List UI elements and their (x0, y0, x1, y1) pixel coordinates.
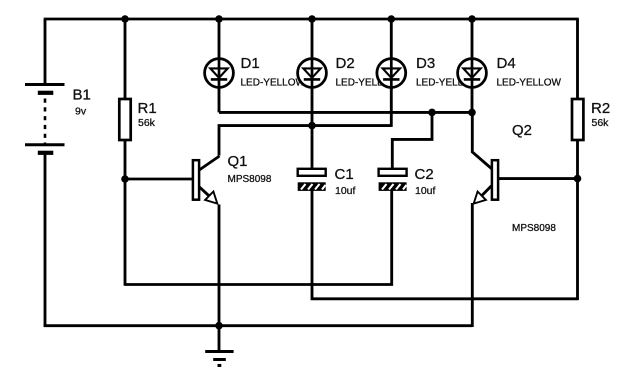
svg-text:10uf: 10uf (335, 185, 356, 197)
svg-text:9v: 9v (75, 106, 87, 118)
svg-text:C1: C1 (335, 166, 354, 183)
wire cross-couple C2 bottom to Q1 base (node B1q) (125, 190, 392, 285)
wire Q1 emitter diagonal (199, 186, 211, 197)
LED D2 (298, 57, 327, 90)
svg-text:D4: D4 (497, 55, 516, 72)
transistor Q2 (474, 160, 498, 203)
wire bottom ground rail (44, 324, 473, 327)
wire R2 top lead (576, 19, 579, 99)
ground (205, 352, 233, 366)
wire Q2 collector net horizontal (219, 111, 472, 114)
svg-text:R1: R1 (138, 100, 157, 117)
wire Q2 emitter diagonal (481, 186, 492, 197)
svg-text:D1: D1 (241, 55, 260, 72)
resistor R1 (119, 99, 130, 140)
wire cross-couple C1 bottom to Q2 base (node B2q) (312, 190, 578, 299)
wire D3 cathode stem (390, 19, 393, 127)
LED D1 (205, 57, 234, 90)
battery B1 (25, 85, 65, 153)
wire top supply rail (44, 18, 579, 21)
svg-text:C2: C2 (415, 166, 434, 183)
svg-text:Q2: Q2 (512, 122, 532, 139)
svg-text:56k: 56k (592, 117, 610, 129)
wire D1 cathode stem (218, 19, 221, 112)
svg-text:D3: D3 (416, 55, 435, 72)
node junction top rail R1 (121, 15, 129, 23)
wire Q2 emitter lead (471, 203, 474, 327)
wire battery positive lead (44, 19, 47, 85)
node junction ground rail / Q1 emitter (215, 322, 223, 330)
wire D4 cathode stem (471, 19, 474, 114)
wire Q1 emitter lead to ground rail (218, 205, 221, 326)
capacitor C2 (379, 169, 407, 191)
svg-text:B1: B1 (73, 87, 91, 104)
svg-text:MPS8098: MPS8098 (228, 174, 272, 185)
svg-text:MPS8098: MPS8098 (512, 223, 556, 234)
capacitor C1 (298, 169, 326, 191)
svg-text:Q1: Q1 (228, 153, 248, 170)
wire Q1 collector diagonal (199, 156, 220, 171)
transistor Q1 (193, 160, 217, 203)
wire Q1 collector net horizontal (219, 126, 391, 156)
node junction C2 elbow on collector net (428, 109, 436, 117)
node junction top rail D2 (308, 15, 316, 23)
node junction R2 / Q2 base (574, 175, 582, 183)
wire battery negative lead (44, 153, 47, 327)
resistor R2 (572, 99, 583, 140)
wire Q2 collector lead (472, 112, 492, 169)
wire R2 branch lower (576, 140, 579, 300)
svg-text:D2: D2 (336, 55, 355, 72)
node junction top rail D3 (388, 15, 396, 23)
node junction D4 / Q2 collector (468, 109, 476, 117)
svg-text:56k: 56k (138, 117, 156, 129)
wire Q1 base (125, 178, 193, 181)
wire elbow to C2 top plate (392, 112, 432, 169)
svg-text:10uf: 10uf (415, 185, 436, 197)
svg-text:LED-YELLOW: LED-YELLOW (497, 78, 562, 89)
LED D4 (458, 57, 487, 90)
LED D3 (377, 57, 406, 90)
wire Q2 base (497, 177, 578, 180)
svg-text:LED-YELLOW: LED-YELLOW (241, 78, 306, 89)
node junction top rail D4 (468, 15, 476, 23)
node junction D2 / Q1 collector net (308, 122, 316, 130)
wire D2 cathode stem to C1 (311, 19, 314, 170)
wire ground stem (218, 326, 221, 352)
wire R1 branch (124, 19, 127, 286)
node junction top rail D1 (215, 15, 223, 23)
node junction R1 / Q1 base (121, 175, 129, 183)
svg-text:R2: R2 (591, 100, 610, 117)
